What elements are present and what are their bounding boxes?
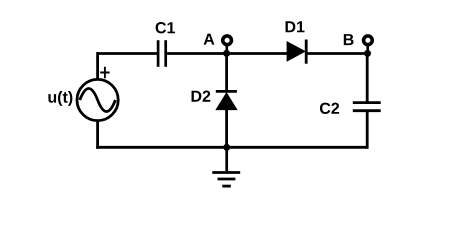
diode D1 (287, 40, 306, 64)
node A terminal stub (226, 46, 229, 52)
plus polarity mark of source (100, 67, 109, 78)
label D2 (192, 91, 211, 102)
ground (212, 147, 240, 186)
wire from C1 right plate to node A (167, 52, 227, 55)
node A terminal circle (223, 36, 232, 45)
voltage source u(t) circle (77, 79, 118, 120)
wire left vertical from top wire down to source circle top (96, 52, 99, 78)
wire node B down to C2 top plate (366, 54, 369, 102)
label C1 (156, 22, 175, 33)
wire bottom rail (96, 146, 367, 149)
label D1 (286, 21, 305, 32)
wire node A down to D2 cathode bar (225, 54, 228, 92)
wire D2 anode down to bottom rail (225, 109, 228, 147)
node B junction dot (364, 50, 371, 57)
node B terminal circle (364, 36, 373, 45)
wire C2 bottom plate down to bottom rail (366, 112, 369, 149)
label B (344, 34, 354, 45)
wire from D1 cathode bar to node B (306, 52, 367, 55)
capacitor C2 (353, 103, 381, 111)
diode D2 (216, 91, 237, 109)
label A (204, 34, 215, 45)
junction dot at ground on bottom rail (223, 144, 230, 151)
label u(t) (48, 91, 72, 106)
node B terminal stub (366, 46, 369, 52)
wire top-left horizontal from source column to C1 left plate (98, 52, 157, 55)
capacitor C1 (158, 40, 166, 67)
node A junction dot (223, 50, 230, 57)
label C2 (320, 103, 339, 114)
wire left vertical from source circle bottom down to bottom rail (96, 122, 99, 149)
wire from node A to D1 anode (227, 52, 288, 55)
